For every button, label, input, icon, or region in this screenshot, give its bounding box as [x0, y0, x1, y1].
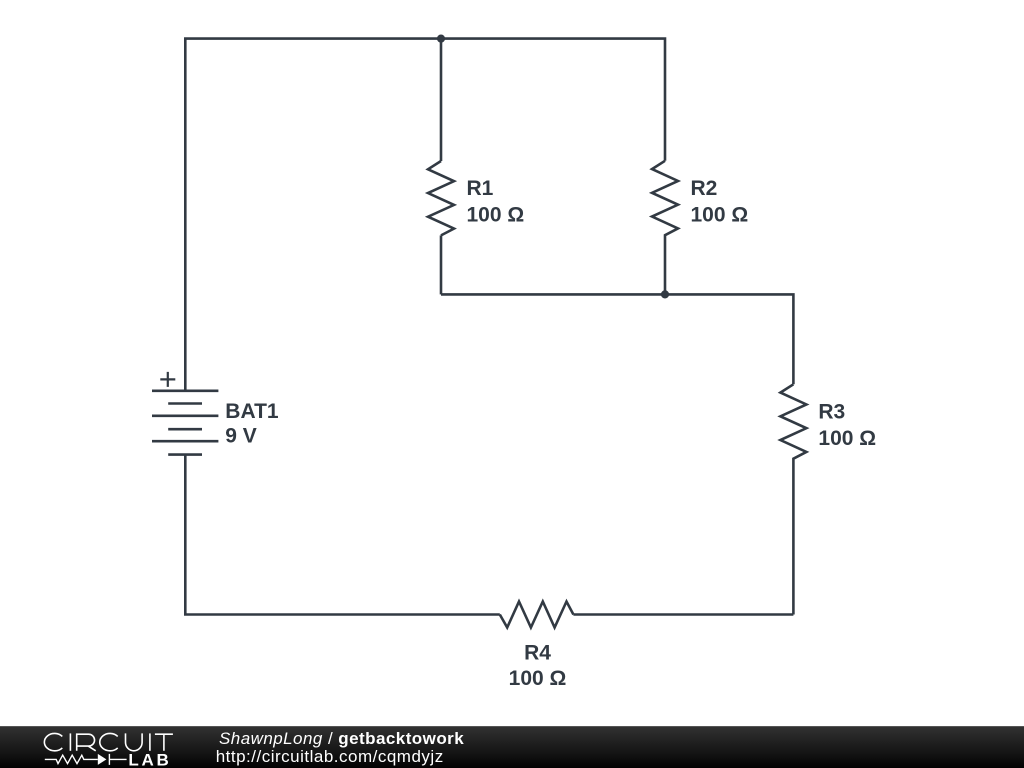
svg-text:R3: R3	[818, 400, 845, 423]
svg-text:BAT1: BAT1	[225, 400, 279, 423]
svg-text:100 Ω: 100 Ω	[467, 204, 525, 227]
svg-text:LAB: LAB	[128, 751, 171, 768]
svg-text:100 Ω: 100 Ω	[509, 667, 567, 690]
svg-text:R4: R4	[524, 641, 551, 664]
svg-text:9 V: 9 V	[225, 425, 257, 448]
svg-text:100 Ω: 100 Ω	[818, 427, 876, 450]
svg-text:100 Ω: 100 Ω	[691, 204, 749, 227]
svg-text:R2: R2	[691, 177, 718, 200]
svg-text:R1: R1	[467, 177, 494, 200]
